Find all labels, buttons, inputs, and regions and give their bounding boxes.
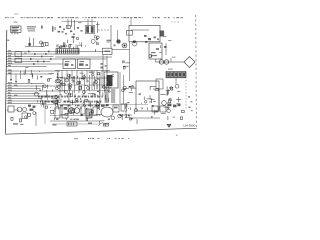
svg-text:LM-3600: LM-3600 — [184, 123, 196, 127]
